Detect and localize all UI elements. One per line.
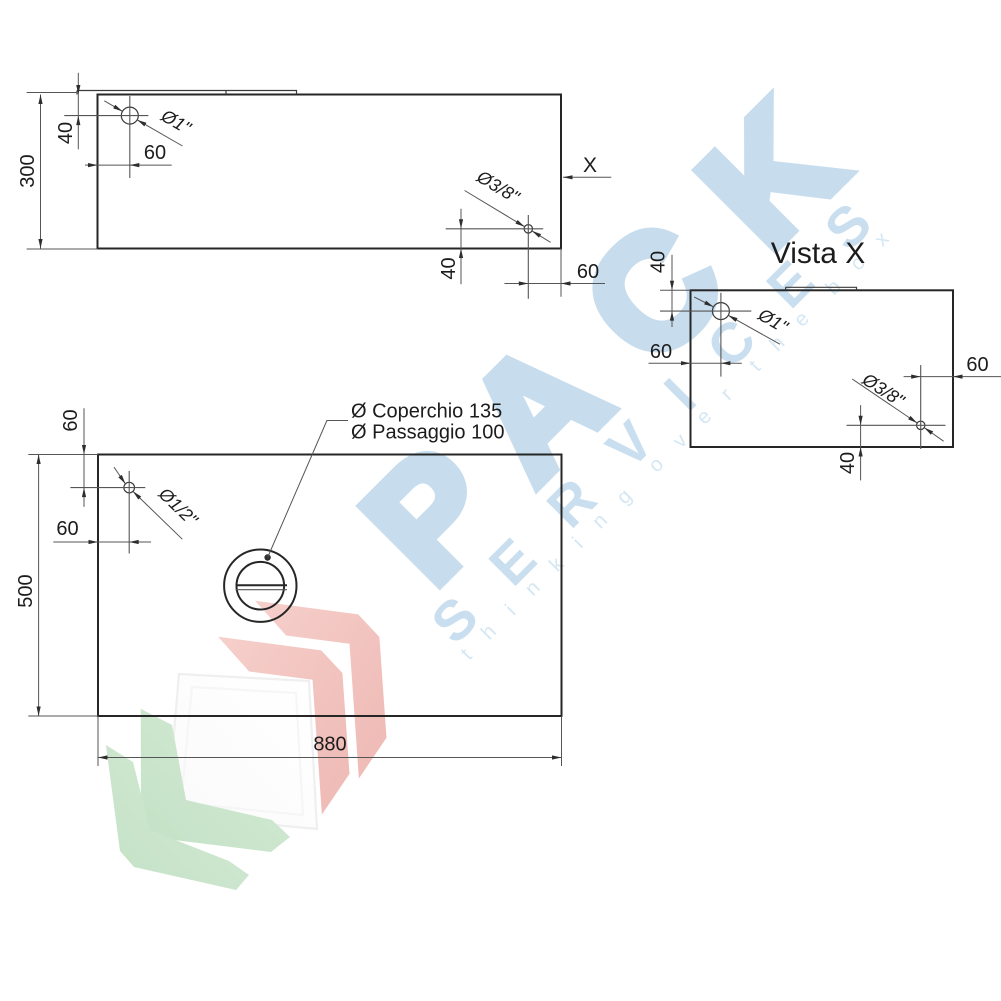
vista leader O1inch [694,297,792,344]
manhole cover outer circle [224,550,296,622]
svg-text:Vista X: Vista X [771,237,866,270]
svg-text:PACK: PACK [332,37,909,614]
vista hole O3/8 circle [917,421,925,429]
hole O1/2 centerlines [70,487,145,489]
manhole passage inner circle [236,562,284,610]
extension lines left for 500 [28,454,98,456]
svg-text:60: 60 [56,518,78,540]
svg-text:500: 500 [15,574,37,607]
vista box outline [691,290,954,447]
lid plate on top [77,91,297,95]
dimension 40 top-left [55,73,78,150]
svg-text:880: 880 [313,734,346,756]
svg-text:Ø3/8": Ø3/8" [858,369,909,412]
svg-text:Ø1/2": Ø1/2" [154,483,202,531]
svg-text:X: X [583,154,597,177]
svg-text:Ø1": Ø1" [157,105,196,139]
logo white tilted square [0,0,1,1]
svg-text:60: 60 [577,261,599,283]
vista hole O1inch circle [712,303,729,320]
svg-text:60: 60 [144,142,166,164]
logo red bracket outer [255,601,386,779]
dimension 880 [98,734,562,758]
svg-text:40: 40 [55,122,77,144]
section arrow X [563,154,611,177]
LOGO bottom-left [106,601,387,890]
svg-text:Ø Passaggio 100: Ø Passaggio 100 [351,422,504,444]
logo red bracket inner [218,637,349,815]
leader manhole with dot [264,401,504,561]
extension line bottom left for 300 [27,248,98,250]
hole O1inch centerlines [64,115,148,117]
manhole bar [236,584,288,586]
WATERMARK [332,37,915,664]
dimension 60 top-left [85,142,172,165]
vista hole O3/8 centerlines [847,424,946,426]
dimension 60 top-right [504,261,605,284]
hole O1/2 circle [124,482,135,493]
extension line top left for 300 [27,92,77,94]
extension lines for 880 [97,716,99,766]
dimension 60 plan left [53,518,151,542]
svg-text:Ø Coperchio 135: Ø Coperchio 135 [351,401,502,423]
svg-text:300: 300 [17,154,39,187]
side view right edge extension below [560,249,562,297]
svg-text:40: 40 [648,251,670,273]
hole O1inch circle [121,107,138,124]
logo green bracket inner [141,709,290,852]
vista lid plate [786,287,857,290]
svg-text:40: 40 [837,452,859,474]
hole O3/8 centerlines [446,228,544,230]
side view box outline [98,95,562,249]
svg-text:60: 60 [966,354,988,376]
dimension 40 top-right [438,209,461,285]
svg-text:40: 40 [438,257,460,279]
svg-text:60: 60 [650,341,672,363]
logo green bracket outer [106,745,249,890]
vista dimension 40 top-left [648,251,673,327]
dimension 60 plan top [60,408,84,507]
hole O3/8 top view circle [524,225,532,233]
vista dimension 60 left [649,341,742,363]
leader O1/2 [114,467,203,539]
plan view box outline [98,455,562,717]
dimension 300 [17,95,41,249]
leader O3/8 top view [465,166,551,242]
dimension 500 [15,455,39,717]
vista leader O3/8 [852,369,943,442]
svg-text:Ø3/8": Ø3/8" [473,166,524,208]
vista hole O1inch centerlines [660,310,751,312]
vista dimension 40 bottom [837,405,861,480]
leader O1inch [104,101,195,146]
vista dimension 60 right [904,354,1001,377]
vista extension top-left [660,289,691,291]
svg-text:60: 60 [60,409,82,431]
